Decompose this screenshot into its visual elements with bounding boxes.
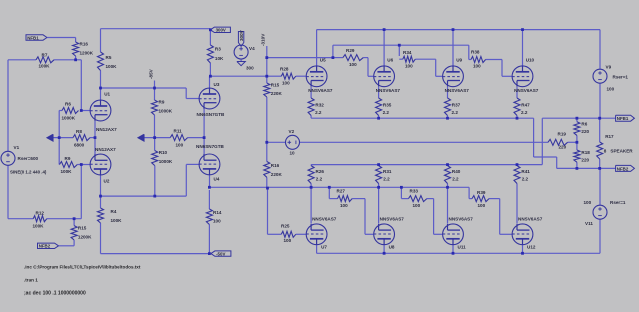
svg-text:SINE(0 1.2 440 .4): SINE(0 1.2 440 .4): [10, 170, 47, 175]
svg-text:100: 100: [478, 203, 486, 208]
svg-text:Rser=1: Rser=1: [613, 75, 629, 80]
svg-text:R35: R35: [383, 103, 392, 108]
svg-text:2.2: 2.2: [316, 177, 323, 182]
svg-text:NN12AX7: NN12AX7: [96, 127, 117, 132]
svg-text:R40: R40: [452, 169, 461, 174]
svg-text:1200K: 1200K: [80, 51, 94, 56]
svg-text:2.2: 2.2: [452, 110, 459, 115]
svg-text:R47: R47: [521, 103, 530, 108]
svg-text:R29: R29: [346, 48, 355, 53]
svg-text:NFB1: NFB1: [617, 116, 629, 121]
svg-text:8: 8: [604, 149, 607, 154]
svg-text:100: 100: [282, 81, 290, 86]
svg-text:V9: V9: [606, 65, 612, 70]
svg-text:100K: 100K: [39, 64, 51, 69]
svg-text:220: 220: [559, 145, 567, 150]
svg-text:V2: V2: [289, 129, 295, 134]
svg-text:U2: U2: [104, 179, 110, 184]
svg-text:1200K: 1200K: [78, 235, 92, 240]
svg-text:2.2: 2.2: [452, 177, 459, 182]
svg-text:V4: V4: [249, 46, 255, 51]
svg-text:300: 300: [246, 66, 254, 71]
svg-text:NNSV6AS7: NNSV6AS7: [514, 88, 539, 93]
svg-text:NN6SN7GTB: NN6SN7GTB: [197, 112, 226, 117]
svg-text:R18: R18: [581, 150, 590, 155]
svg-text:R4: R4: [111, 209, 117, 214]
svg-text:U4: U4: [214, 177, 220, 182]
svg-text:220K: 220K: [271, 91, 283, 96]
svg-text:R17: R17: [605, 134, 614, 139]
svg-text:.inc C:\Program Files\LTC\LTsp: .inc C:\Program Files\LTC\LTspiceIV\lib\…: [24, 265, 141, 270]
svg-text:2.2: 2.2: [521, 110, 528, 115]
svg-text:Rser=600: Rser=600: [18, 156, 39, 161]
svg-text:220: 220: [581, 158, 589, 163]
svg-text:NNSV6AS7: NNSV6AS7: [518, 217, 543, 222]
svg-text:U1: U1: [104, 92, 110, 97]
svg-text:R26: R26: [316, 169, 325, 174]
svg-text:NFB1: NFB1: [27, 35, 39, 40]
svg-text:300V: 300V: [216, 28, 226, 33]
svg-text:220K: 220K: [271, 172, 283, 177]
svg-text:100: 100: [176, 143, 184, 148]
svg-text:NN6SN7GTB: NN6SN7GTB: [196, 144, 225, 149]
svg-text:NFB2: NFB2: [39, 244, 51, 249]
svg-text:10K: 10K: [215, 56, 224, 61]
svg-text:220: 220: [581, 129, 589, 134]
svg-text:100K: 100K: [106, 64, 118, 69]
svg-text:V1: V1: [14, 145, 20, 150]
svg-text:300V: 300V: [239, 29, 244, 41]
svg-text:U12: U12: [527, 245, 536, 250]
svg-text:100: 100: [413, 203, 421, 208]
svg-text:NNSV6AS7: NNSV6AS7: [445, 88, 470, 93]
svg-text:U9: U9: [456, 58, 462, 63]
svg-text:R31: R31: [383, 169, 392, 174]
svg-text:NNSV6AS7: NNSV6AS7: [449, 217, 474, 222]
svg-text:R37: R37: [452, 103, 461, 108]
svg-text:U3: U3: [214, 82, 220, 87]
svg-text:R7: R7: [42, 53, 48, 58]
svg-text:1000K: 1000K: [62, 116, 76, 121]
svg-text:10: 10: [290, 151, 296, 156]
svg-text:R9: R9: [159, 100, 165, 105]
svg-text:U11: U11: [458, 245, 467, 250]
svg-text:Rser=1: Rser=1: [610, 200, 626, 205]
svg-text:100: 100: [349, 62, 357, 67]
svg-text:R12: R12: [36, 211, 45, 216]
svg-text:R19: R19: [558, 132, 567, 137]
svg-text:2.2: 2.2: [315, 110, 322, 115]
svg-text:R11: R11: [174, 129, 183, 134]
svg-text:NFB2: NFB2: [617, 166, 629, 171]
svg-text:NNSV6AS7: NNSV6AS7: [312, 217, 337, 222]
svg-text:2.2: 2.2: [383, 177, 390, 182]
svg-text:R34: R34: [403, 50, 412, 55]
svg-text:R14: R14: [213, 210, 222, 215]
svg-text:NN12AX7: NN12AX7: [95, 147, 116, 152]
svg-text:U5: U5: [320, 58, 326, 63]
svg-text:U7: U7: [321, 245, 327, 250]
svg-text:100K: 100K: [111, 218, 123, 223]
svg-text:NNSV6AS7: NNSV6AS7: [308, 88, 333, 93]
svg-text:U8: U8: [389, 245, 395, 250]
svg-text:100K: 100K: [33, 224, 45, 229]
svg-text:R25: R25: [281, 224, 290, 229]
svg-text:R3: R3: [215, 47, 221, 52]
svg-text:R32: R32: [315, 103, 324, 108]
svg-text:U10: U10: [526, 58, 535, 63]
svg-text:R38: R38: [471, 50, 480, 55]
svg-text:2.2: 2.2: [522, 177, 529, 182]
svg-text:-85V: -85V: [149, 68, 154, 79]
svg-text:R6: R6: [581, 122, 587, 127]
svg-text:100: 100: [405, 64, 413, 69]
svg-text:R16: R16: [80, 42, 89, 47]
svg-text:R27: R27: [337, 189, 346, 194]
svg-text:R10: R10: [159, 150, 168, 155]
svg-text:SPEAKER: SPEAKER: [610, 149, 633, 154]
svg-text:;ac dec 100 .1 1000000000: ;ac dec 100 .1 1000000000: [24, 291, 86, 297]
svg-text:1000K: 1000K: [159, 109, 173, 114]
svg-text:.tran 1: .tran 1: [24, 278, 38, 283]
svg-text:NNSV6AS7: NNSV6AS7: [380, 217, 405, 222]
svg-text:100K: 100K: [61, 169, 73, 174]
svg-text:R41: R41: [521, 169, 530, 174]
svg-text:100: 100: [473, 64, 481, 69]
svg-text:100: 100: [213, 219, 221, 224]
svg-text:-50V: -50V: [216, 251, 225, 256]
svg-text:U6: U6: [387, 58, 393, 63]
svg-text:1000K: 1000K: [159, 159, 173, 164]
svg-text:V11: V11: [585, 221, 593, 226]
svg-text:R8: R8: [76, 129, 82, 134]
svg-text:6800: 6800: [74, 143, 85, 148]
svg-text:100: 100: [340, 203, 348, 208]
svg-text:-310V: -310V: [260, 33, 265, 46]
svg-text:R33: R33: [410, 189, 419, 194]
svg-text:100: 100: [584, 200, 592, 205]
svg-text:R9: R9: [65, 156, 71, 161]
svg-text:R15: R15: [78, 226, 87, 231]
svg-text:100: 100: [607, 87, 615, 92]
svg-text:R5: R5: [106, 55, 112, 60]
svg-text:100: 100: [284, 238, 292, 243]
svg-text:R16: R16: [271, 163, 280, 168]
svg-text:NNSV6AS7: NNSV6AS7: [376, 88, 401, 93]
svg-text:R28: R28: [280, 67, 289, 72]
svg-text:2.2: 2.2: [383, 110, 390, 115]
svg-text:R39: R39: [477, 190, 486, 195]
svg-text:R6: R6: [65, 102, 71, 107]
svg-text:R15: R15: [271, 83, 280, 88]
